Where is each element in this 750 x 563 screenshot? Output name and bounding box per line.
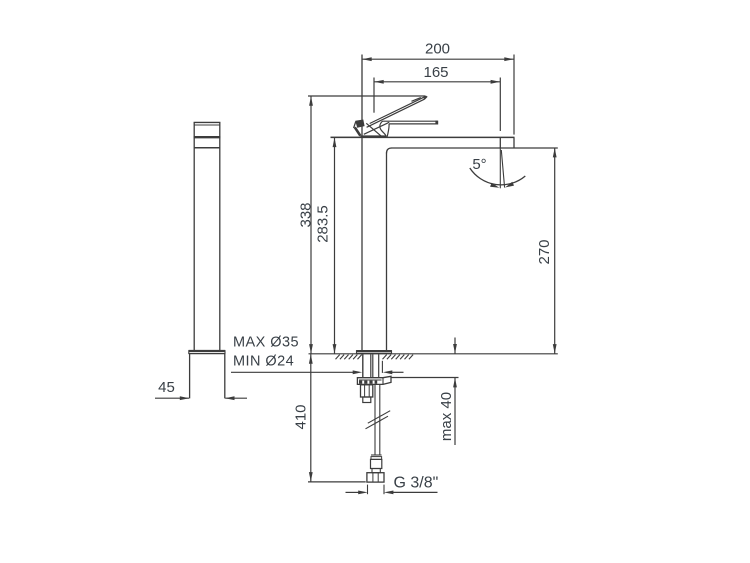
svg-text:5°: 5° bbox=[472, 156, 486, 173]
front base flange bbox=[356, 350, 391, 354]
threaded shank bbox=[363, 354, 383, 377]
hose end fittings bbox=[367, 455, 384, 482]
extension line spout top left bbox=[331, 136, 363, 138]
supply hose bbox=[375, 385, 380, 456]
side view under-counter housing bbox=[190, 354, 225, 398]
svg-text:338: 338 bbox=[297, 202, 314, 227]
svg-text:270: 270 bbox=[536, 239, 553, 264]
dimension max 40 bbox=[438, 338, 457, 446]
dimension 165 bbox=[374, 64, 500, 131]
extension line handle top bbox=[308, 95, 425, 97]
countertop surface line bbox=[309, 353, 558, 355]
countertop hatching right bbox=[383, 355, 414, 360]
svg-text:G 3/8": G 3/8" bbox=[394, 475, 439, 492]
hex adapter below nut bbox=[361, 385, 373, 403]
dimension 338 bbox=[297, 96, 314, 353]
extension line nut top bbox=[391, 377, 459, 379]
svg-text:MAX Ø35: MAX Ø35 bbox=[233, 334, 299, 350]
svg-text:410: 410 bbox=[292, 404, 309, 429]
svg-text:165: 165 bbox=[423, 64, 448, 81]
svg-text:200: 200 bbox=[425, 41, 450, 58]
countertop hatching left bbox=[336, 355, 362, 360]
label MAX diameter 35 bbox=[233, 334, 299, 350]
dimension G 3/8 bbox=[346, 475, 439, 495]
handle lever bbox=[354, 95, 439, 136]
svg-text:283.5: 283.5 bbox=[315, 205, 332, 243]
hose break symbol bbox=[366, 411, 391, 429]
side view base flange bbox=[189, 350, 226, 354]
svg-text:45: 45 bbox=[158, 379, 175, 396]
dimension 270 bbox=[536, 148, 557, 354]
mounting nut bbox=[357, 376, 391, 384]
svg-text:max 40: max 40 bbox=[438, 392, 455, 441]
dimension 410 bbox=[292, 354, 365, 482]
dimension 45 bbox=[155, 379, 247, 400]
5 degree angle dimension bbox=[470, 148, 526, 188]
svg-text:MIN Ø24: MIN Ø24 bbox=[233, 354, 294, 370]
label MIN diameter 24 bbox=[233, 354, 294, 370]
diameter 24 leader arrows bbox=[231, 370, 404, 374]
side view faucet column bbox=[194, 122, 221, 350]
dimension 283.5 bbox=[315, 138, 337, 354]
spout bbox=[331, 137, 558, 148]
faucet body bbox=[362, 55, 392, 351]
dimension 200 bbox=[362, 41, 514, 135]
